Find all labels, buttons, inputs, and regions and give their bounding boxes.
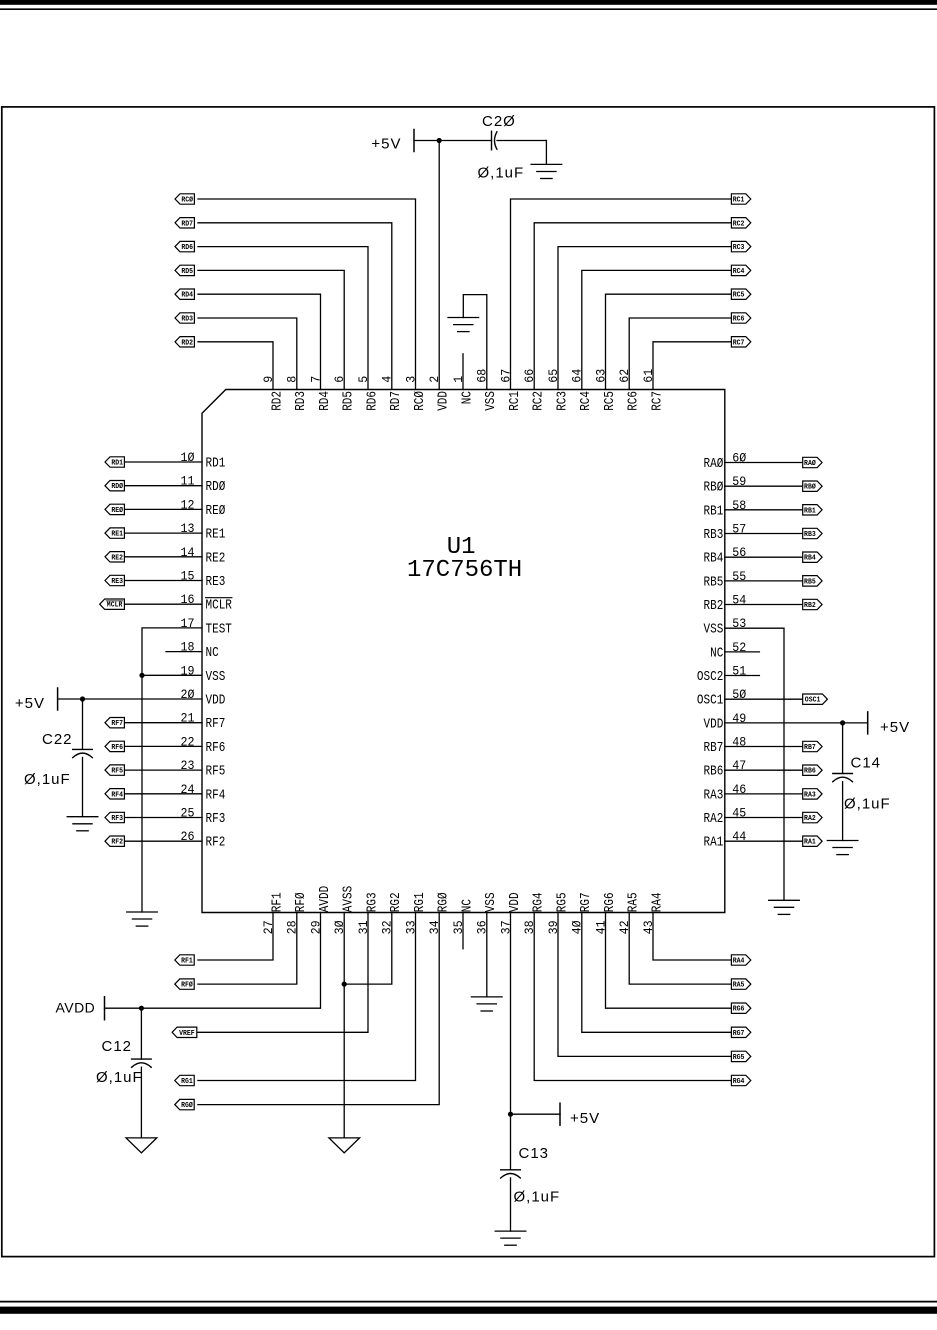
svg-text:RB4: RB4 bbox=[804, 555, 816, 563]
svg-text:6: 6 bbox=[333, 376, 347, 383]
svg-text:RA5: RA5 bbox=[627, 892, 642, 912]
svg-text:52: 52 bbox=[732, 641, 746, 655]
svg-text:RF5: RF5 bbox=[206, 765, 226, 780]
svg-text:51: 51 bbox=[732, 665, 746, 679]
svg-text:VSS: VSS bbox=[206, 670, 226, 685]
svg-text:RC3: RC3 bbox=[733, 244, 745, 252]
svg-text:RG5: RG5 bbox=[733, 1054, 745, 1062]
svg-text:RB4: RB4 bbox=[704, 552, 724, 567]
svg-text:RD5: RD5 bbox=[181, 268, 193, 276]
svg-text:58: 58 bbox=[732, 499, 746, 513]
svg-text:+5V: +5V bbox=[371, 136, 401, 153]
svg-text:17: 17 bbox=[181, 617, 195, 631]
svg-text:RGØ: RGØ bbox=[437, 892, 452, 912]
svg-text:61: 61 bbox=[642, 369, 656, 383]
svg-text:RD2: RD2 bbox=[181, 339, 193, 347]
svg-text:RF5: RF5 bbox=[111, 768, 123, 776]
svg-text:VDD: VDD bbox=[704, 717, 724, 732]
svg-text:VDD: VDD bbox=[508, 892, 523, 912]
svg-text:Ø,1uF: Ø,1uF bbox=[478, 165, 525, 182]
svg-text:67: 67 bbox=[499, 369, 513, 383]
svg-text:+5V: +5V bbox=[15, 695, 45, 712]
svg-text:31: 31 bbox=[357, 920, 371, 934]
svg-text:TEST: TEST bbox=[206, 622, 232, 637]
svg-text:RE1: RE1 bbox=[111, 531, 123, 539]
svg-text:RB1: RB1 bbox=[804, 507, 816, 515]
svg-text:1Ø: 1Ø bbox=[181, 451, 195, 465]
svg-text:RA4: RA4 bbox=[733, 958, 745, 966]
svg-text:RG7: RG7 bbox=[733, 1030, 745, 1038]
svg-text:18: 18 bbox=[181, 641, 195, 655]
svg-text:RG7: RG7 bbox=[579, 892, 594, 912]
svg-text:RDØ: RDØ bbox=[206, 480, 226, 495]
svg-text:5Ø: 5Ø bbox=[732, 688, 746, 702]
svg-text:VREF: VREF bbox=[179, 1030, 195, 1038]
svg-text:34: 34 bbox=[428, 920, 442, 934]
svg-text:25: 25 bbox=[181, 807, 195, 821]
svg-text:RC4: RC4 bbox=[733, 268, 745, 276]
svg-text:RG6: RG6 bbox=[603, 892, 618, 912]
svg-text:68: 68 bbox=[476, 369, 490, 383]
svg-text:66: 66 bbox=[523, 369, 537, 383]
svg-text:OSC1: OSC1 bbox=[697, 694, 723, 709]
svg-text:63: 63 bbox=[594, 369, 608, 383]
svg-text:REØ: REØ bbox=[206, 504, 226, 519]
svg-text:29: 29 bbox=[309, 920, 323, 934]
svg-text:16: 16 bbox=[181, 593, 195, 607]
svg-text:RC4: RC4 bbox=[579, 391, 594, 411]
svg-text:7: 7 bbox=[309, 376, 323, 383]
svg-text:33: 33 bbox=[404, 920, 418, 934]
svg-text:39: 39 bbox=[547, 920, 561, 934]
svg-text:OSC1: OSC1 bbox=[805, 697, 821, 705]
svg-text:19: 19 bbox=[181, 664, 195, 678]
svg-text:RE2: RE2 bbox=[206, 551, 226, 566]
svg-text:49: 49 bbox=[732, 712, 746, 726]
svg-text:38: 38 bbox=[523, 920, 537, 934]
svg-text:RB2: RB2 bbox=[804, 602, 816, 610]
svg-text:14: 14 bbox=[181, 546, 195, 560]
svg-text:AVSS: AVSS bbox=[342, 886, 357, 912]
svg-text:RD3: RD3 bbox=[181, 316, 193, 324]
svg-text:OSC2: OSC2 bbox=[697, 670, 723, 685]
svg-text:56: 56 bbox=[732, 546, 746, 560]
svg-text:RFØ: RFØ bbox=[181, 981, 193, 990]
svg-text:RF4: RF4 bbox=[111, 791, 123, 799]
svg-text:RCØ: RCØ bbox=[181, 196, 193, 205]
svg-text:Ø,1uF: Ø,1uF bbox=[844, 796, 891, 813]
svg-text:RC2: RC2 bbox=[532, 391, 547, 411]
svg-text:RE1: RE1 bbox=[206, 528, 226, 543]
svg-text:43: 43 bbox=[642, 920, 656, 934]
svg-text:VSS: VSS bbox=[704, 623, 724, 638]
svg-text:9: 9 bbox=[262, 376, 276, 383]
svg-text:RD7: RD7 bbox=[389, 391, 404, 411]
svg-text:NC: NC bbox=[460, 391, 475, 404]
svg-text:RC6: RC6 bbox=[733, 316, 745, 324]
svg-text:26: 26 bbox=[181, 830, 195, 844]
svg-text:RF6: RF6 bbox=[111, 744, 123, 752]
svg-text:42: 42 bbox=[618, 920, 632, 934]
svg-text:RG1: RG1 bbox=[181, 1078, 193, 1086]
svg-text:RB5: RB5 bbox=[804, 578, 816, 586]
svg-text:RG5: RG5 bbox=[555, 892, 570, 912]
svg-text:VSS: VSS bbox=[484, 391, 499, 411]
svg-text:6Ø: 6Ø bbox=[732, 452, 746, 466]
svg-text:24: 24 bbox=[181, 783, 195, 797]
svg-text:27: 27 bbox=[262, 920, 276, 934]
svg-text:3Ø: 3Ø bbox=[333, 920, 347, 934]
svg-text:RA4: RA4 bbox=[650, 892, 665, 912]
svg-text:4: 4 bbox=[381, 376, 395, 383]
svg-text:RGØ: RGØ bbox=[181, 1101, 193, 1110]
svg-text:RA2: RA2 bbox=[804, 815, 816, 823]
svg-text:RC2: RC2 bbox=[733, 220, 745, 228]
svg-text:RD1: RD1 bbox=[111, 460, 123, 468]
svg-text:45: 45 bbox=[732, 807, 746, 821]
svg-text:AVDD: AVDD bbox=[318, 886, 333, 912]
svg-text:RB7: RB7 bbox=[704, 741, 724, 756]
svg-text:RD6: RD6 bbox=[365, 391, 380, 411]
svg-text:RB5: RB5 bbox=[704, 575, 724, 590]
svg-text:MCLR: MCLR bbox=[107, 602, 123, 610]
svg-text:RA1: RA1 bbox=[704, 836, 724, 851]
svg-text:NC: NC bbox=[460, 899, 475, 912]
svg-text:RF6: RF6 bbox=[206, 741, 226, 756]
svg-text:MCLR: MCLR bbox=[206, 599, 232, 614]
svg-text:3: 3 bbox=[404, 376, 418, 383]
svg-text:NC: NC bbox=[206, 646, 219, 661]
svg-text:+5V: +5V bbox=[880, 719, 910, 736]
svg-text:11: 11 bbox=[181, 475, 195, 489]
svg-text:RG2: RG2 bbox=[389, 892, 404, 912]
svg-text:C22: C22 bbox=[42, 731, 73, 748]
svg-text:+5V: +5V bbox=[570, 1110, 600, 1127]
svg-text:RG4: RG4 bbox=[532, 892, 547, 912]
svg-text:RA2: RA2 bbox=[704, 812, 724, 827]
svg-text:RB3: RB3 bbox=[704, 528, 724, 543]
svg-text:62: 62 bbox=[618, 369, 632, 383]
svg-text:RD1: RD1 bbox=[206, 457, 226, 472]
svg-text:28: 28 bbox=[286, 920, 300, 934]
svg-text:RD4: RD4 bbox=[181, 292, 193, 300]
svg-text:RA3: RA3 bbox=[804, 791, 816, 799]
svg-text:C13: C13 bbox=[519, 1145, 550, 1162]
svg-text:RF2: RF2 bbox=[206, 836, 226, 851]
svg-text:46: 46 bbox=[732, 783, 746, 797]
svg-text:RBØ: RBØ bbox=[704, 481, 724, 496]
svg-text:13: 13 bbox=[181, 522, 195, 536]
svg-text:RB6: RB6 bbox=[804, 768, 816, 776]
svg-text:RB7: RB7 bbox=[804, 744, 816, 752]
svg-text:RC5: RC5 bbox=[733, 292, 745, 300]
svg-text:RD6: RD6 bbox=[181, 244, 193, 252]
svg-text:Ø,1uF: Ø,1uF bbox=[514, 1189, 561, 1206]
svg-text:Ø,1uF: Ø,1uF bbox=[96, 1069, 143, 1086]
svg-text:RC7: RC7 bbox=[733, 339, 745, 347]
svg-text:RD4: RD4 bbox=[318, 391, 333, 411]
svg-text:C14: C14 bbox=[851, 755, 882, 772]
svg-text:RF1: RF1 bbox=[181, 958, 193, 966]
svg-text:59: 59 bbox=[732, 475, 746, 489]
svg-text:RA1: RA1 bbox=[804, 839, 816, 847]
svg-text:RB3: RB3 bbox=[804, 531, 816, 539]
svg-text:RG3: RG3 bbox=[365, 892, 380, 912]
svg-text:2Ø: 2Ø bbox=[181, 688, 195, 702]
svg-text:RF7: RF7 bbox=[206, 717, 226, 732]
svg-text:65: 65 bbox=[547, 369, 561, 383]
svg-text:NC: NC bbox=[710, 646, 723, 661]
svg-text:VSS: VSS bbox=[484, 892, 499, 912]
svg-text:RC6: RC6 bbox=[627, 391, 642, 411]
svg-text:55: 55 bbox=[732, 570, 746, 584]
svg-text:48: 48 bbox=[732, 736, 746, 750]
svg-text:RG1: RG1 bbox=[413, 892, 428, 912]
svg-text:C2Ø: C2Ø bbox=[482, 113, 516, 130]
svg-text:RF1: RF1 bbox=[270, 892, 285, 912]
svg-text:32: 32 bbox=[381, 920, 395, 934]
svg-text:RFØ: RFØ bbox=[294, 892, 309, 912]
svg-text:44: 44 bbox=[732, 830, 746, 844]
svg-text:5: 5 bbox=[357, 376, 371, 383]
svg-text:RF4: RF4 bbox=[206, 788, 226, 803]
svg-text:RC1: RC1 bbox=[733, 197, 745, 205]
svg-text:RCØ: RCØ bbox=[413, 391, 428, 411]
svg-text:RF3: RF3 bbox=[111, 815, 123, 823]
svg-text:RAØ: RAØ bbox=[804, 459, 816, 468]
svg-text:RC1: RC1 bbox=[508, 391, 523, 411]
svg-text:RB6: RB6 bbox=[704, 765, 724, 780]
svg-text:RA5: RA5 bbox=[733, 982, 745, 990]
svg-text:37: 37 bbox=[499, 920, 513, 934]
svg-text:47: 47 bbox=[732, 759, 746, 773]
svg-text:23: 23 bbox=[181, 759, 195, 773]
svg-text:RBØ: RBØ bbox=[804, 483, 816, 492]
svg-text:RF2: RF2 bbox=[111, 839, 123, 847]
svg-text:12: 12 bbox=[181, 498, 195, 512]
svg-text:RE2: RE2 bbox=[111, 554, 123, 562]
svg-text:RB1: RB1 bbox=[704, 504, 724, 519]
svg-text:RC5: RC5 bbox=[603, 391, 618, 411]
svg-text:RD5: RD5 bbox=[342, 391, 357, 411]
svg-text:57: 57 bbox=[732, 523, 746, 537]
svg-text:RDØ: RDØ bbox=[111, 482, 123, 491]
svg-text:AVDD: AVDD bbox=[55, 1000, 95, 1016]
svg-text:Ø,1uF: Ø,1uF bbox=[24, 771, 71, 788]
svg-text:RF3: RF3 bbox=[206, 812, 226, 827]
svg-text:RE3: RE3 bbox=[206, 575, 226, 590]
svg-text:RG4: RG4 bbox=[733, 1078, 745, 1086]
svg-text:17C756TH: 17C756TH bbox=[407, 557, 522, 584]
svg-text:15: 15 bbox=[181, 570, 195, 584]
svg-text:2: 2 bbox=[428, 376, 442, 383]
svg-text:C12: C12 bbox=[102, 1038, 133, 1055]
svg-text:VDD: VDD bbox=[206, 694, 226, 709]
svg-text:RD7: RD7 bbox=[181, 220, 193, 228]
svg-text:RB2: RB2 bbox=[704, 599, 724, 614]
svg-text:RD2: RD2 bbox=[270, 391, 285, 411]
svg-text:36: 36 bbox=[476, 920, 490, 934]
svg-text:RC3: RC3 bbox=[555, 391, 570, 411]
svg-text:RE3: RE3 bbox=[111, 578, 123, 586]
svg-text:RA3: RA3 bbox=[704, 788, 724, 803]
svg-text:54: 54 bbox=[732, 594, 746, 608]
svg-text:53: 53 bbox=[732, 617, 746, 631]
svg-text:1: 1 bbox=[452, 376, 466, 383]
svg-text:8: 8 bbox=[286, 376, 300, 383]
svg-text:REØ: REØ bbox=[111, 506, 123, 515]
svg-text:22: 22 bbox=[181, 735, 195, 749]
svg-text:RC7: RC7 bbox=[650, 391, 665, 411]
svg-text:RD3: RD3 bbox=[294, 391, 309, 411]
svg-text:RF7: RF7 bbox=[111, 720, 123, 728]
svg-text:RAØ: RAØ bbox=[704, 457, 724, 472]
svg-text:RG6: RG6 bbox=[733, 1006, 745, 1014]
svg-text:VDD: VDD bbox=[437, 391, 452, 411]
svg-text:35: 35 bbox=[452, 920, 466, 934]
svg-text:21: 21 bbox=[181, 712, 195, 726]
svg-text:41: 41 bbox=[594, 920, 608, 934]
